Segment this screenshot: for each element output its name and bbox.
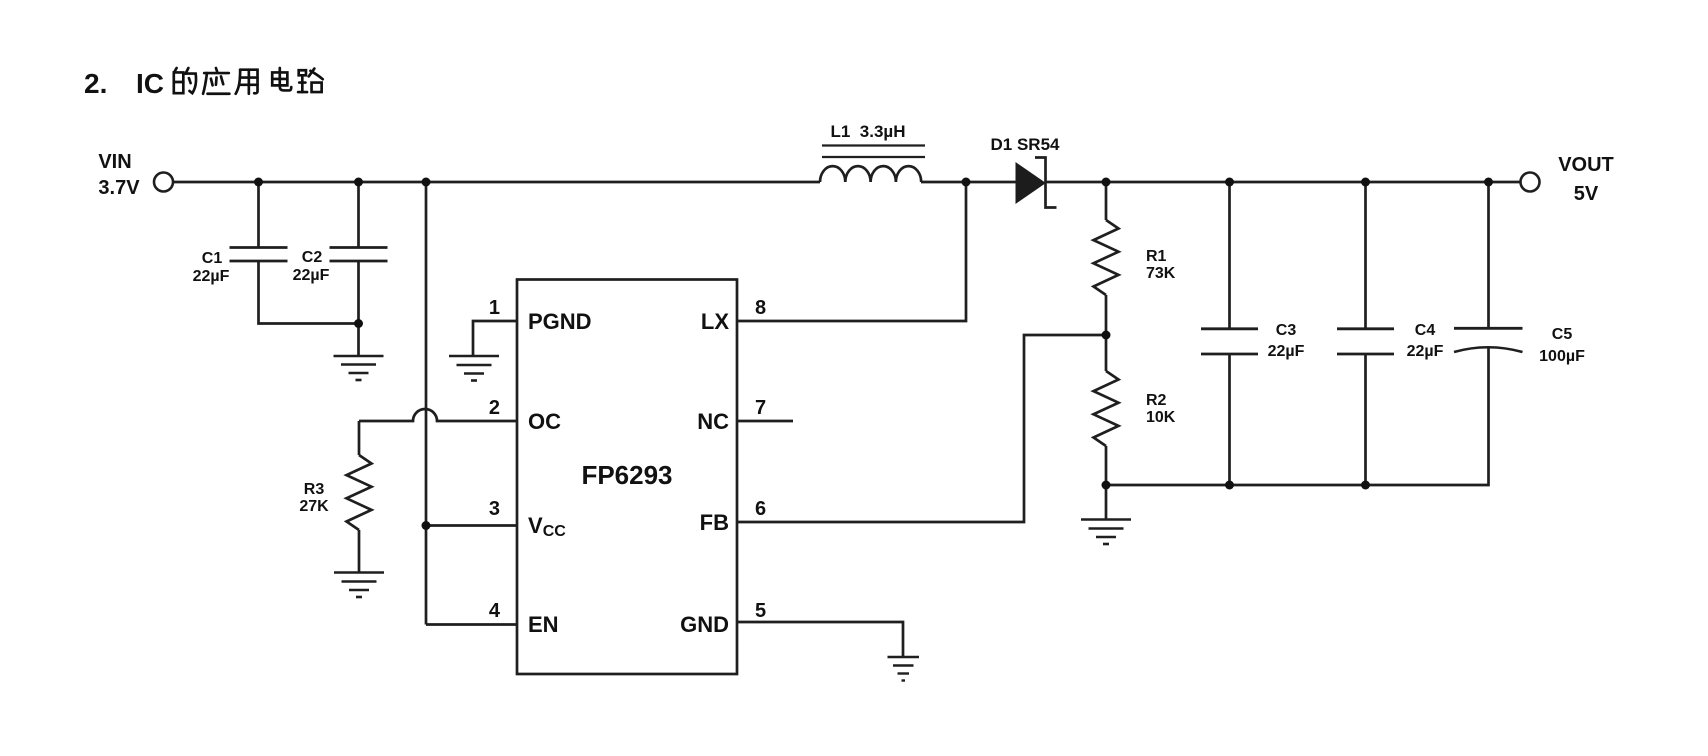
inductor L1 coil bbox=[820, 166, 921, 182]
svg-text:R1: R1 bbox=[1146, 248, 1167, 265]
svg-text:PGND: PGND bbox=[528, 309, 592, 334]
op-amp: IC body FP6293 bbox=[517, 280, 737, 675]
terminal VIN circle bbox=[154, 173, 173, 192]
terminal VOUT circle bbox=[1521, 173, 1540, 192]
node: C3 bottom bbox=[1225, 481, 1234, 490]
svg-text:VOUT: VOUT bbox=[1558, 154, 1614, 176]
svg-text:5V: 5V bbox=[1574, 183, 1599, 205]
node: VCC tap on bus bbox=[422, 521, 431, 530]
svg-text:27K: 27K bbox=[299, 498, 329, 515]
diode D1 cathode bar (schottky) bbox=[1035, 158, 1057, 208]
svg-text:4: 4 bbox=[489, 600, 501, 622]
svg-text:3: 3 bbox=[489, 498, 500, 520]
svg-text:R3: R3 bbox=[304, 481, 325, 498]
svg-text:LX: LX bbox=[701, 309, 729, 334]
svg-text:2: 2 bbox=[489, 397, 500, 419]
svg-text:22µF: 22µF bbox=[193, 268, 230, 285]
title: Chinese characters drawn as strokes bbox=[174, 68, 323, 94]
svg-text:C5: C5 bbox=[1552, 326, 1573, 343]
node: VIN/C1 junction bbox=[254, 178, 263, 187]
svg-text:73K: 73K bbox=[1146, 265, 1176, 282]
svg-text:VIN: VIN bbox=[98, 151, 131, 173]
svg-text:2.: 2. bbox=[84, 68, 107, 99]
node: diode cathode / R1 top bbox=[1102, 178, 1111, 187]
wire: pin5 GND lead bbox=[737, 622, 903, 657]
hanzi 应 bbox=[203, 68, 229, 94]
svg-text:GND: GND bbox=[680, 612, 729, 637]
wire: OC pin2 with hop over bus bbox=[359, 409, 517, 421]
svg-text:L1 3.3µH: L1 3.3µH bbox=[831, 122, 906, 141]
hanzi 路 bbox=[298, 69, 323, 93]
resistor R1 leads bbox=[1105, 182, 1108, 220]
svg-text:FB: FB bbox=[700, 510, 729, 535]
capacitor C5 curved bottom plate bbox=[1454, 347, 1523, 352]
wire: R3 bottom lead bbox=[358, 530, 361, 572]
capacitor C2 plates bbox=[330, 246, 388, 249]
wire: left bus vertical x=426 bbox=[425, 182, 428, 625]
wire: bottom rail bbox=[1106, 347, 1489, 485]
svg-text:7: 7 bbox=[755, 397, 766, 419]
svg-text:6: 6 bbox=[755, 498, 766, 520]
node: C5 top bbox=[1484, 178, 1493, 187]
wire: VCC pin3 horizontal bbox=[426, 524, 517, 527]
svg-text:C3: C3 bbox=[1276, 322, 1297, 339]
resistor R3 zigzag bbox=[347, 455, 372, 530]
svg-text:100µF: 100µF bbox=[1539, 348, 1585, 365]
wire: C4 risers bbox=[1364, 182, 1367, 329]
capacitor C3 plates bbox=[1201, 327, 1258, 330]
capacitor C1 plates bbox=[230, 246, 288, 249]
svg-text:EN: EN bbox=[528, 612, 559, 637]
wire: C3 risers bbox=[1228, 182, 1231, 329]
wire: C2 riser top bbox=[357, 182, 360, 248]
wire: diode to VOUT bbox=[1046, 181, 1521, 184]
wire: pin1 PGND lead bbox=[473, 321, 517, 356]
wire: C5 riser top bbox=[1487, 182, 1490, 328]
node: bus junction bbox=[422, 178, 431, 187]
wire: R3 top lead bbox=[358, 421, 361, 455]
svg-text:C4: C4 bbox=[1415, 322, 1436, 339]
ground: below R2 bbox=[1081, 520, 1131, 545]
svg-text:22µF: 22µF bbox=[1268, 343, 1305, 360]
svg-text:NC: NC bbox=[697, 409, 729, 434]
node: C4 bottom bbox=[1361, 481, 1370, 490]
svg-text:22µF: 22µF bbox=[293, 267, 330, 284]
svg-text:22µF: 22µF bbox=[1407, 343, 1444, 360]
wire: R2 bottom to ground bbox=[1105, 485, 1108, 519]
resistor R2 leads bbox=[1105, 335, 1108, 371]
wire: top rail VIN to inductor bbox=[173, 181, 820, 184]
capacitor C4 plates bbox=[1337, 327, 1394, 330]
svg-text:R2: R2 bbox=[1146, 392, 1167, 409]
node: C4 top bbox=[1361, 178, 1370, 187]
node: switch node LX bbox=[962, 178, 971, 187]
svg-text:5: 5 bbox=[755, 600, 766, 622]
resistor R2 zigzag bbox=[1094, 371, 1119, 446]
hanzi 用 bbox=[236, 70, 258, 94]
svg-text:3.7V: 3.7V bbox=[98, 177, 140, 199]
node: C3 top bbox=[1225, 178, 1234, 187]
svg-text:8: 8 bbox=[755, 297, 766, 319]
node: FB divider junction bbox=[1102, 331, 1111, 340]
inductor L1 core bars bbox=[822, 144, 925, 146]
wire: C1 riser top bbox=[257, 182, 260, 248]
wire: pin7 NC stub bbox=[737, 420, 793, 423]
svg-text:D1 SR54: D1 SR54 bbox=[991, 135, 1061, 154]
svg-text:IC: IC bbox=[136, 68, 164, 99]
hanzi 电 bbox=[272, 68, 291, 90]
svg-text:FP6293: FP6293 bbox=[581, 460, 672, 490]
svg-text:C2: C2 bbox=[302, 249, 323, 266]
hanzi 的 bbox=[174, 68, 196, 93]
svg-text:OC: OC bbox=[528, 409, 561, 434]
capacitor C5 top plate bbox=[1454, 327, 1523, 330]
diode D1 triangle bbox=[1016, 163, 1045, 203]
wire: C2 bottom to ground bbox=[357, 261, 360, 356]
node: C2 junction bbox=[354, 178, 363, 187]
ground: PGND pin1 bbox=[449, 356, 499, 381]
ground: below R3 bbox=[334, 573, 384, 598]
svg-text:1: 1 bbox=[489, 297, 500, 319]
svg-text:10K: 10K bbox=[1146, 409, 1176, 426]
svg-text:VCC: VCC bbox=[528, 513, 566, 540]
wire: inductor to diode bbox=[921, 181, 1016, 184]
wire: pin8 LX lead to switch node bbox=[737, 182, 966, 321]
wire: EN pin4 horizontal bbox=[426, 623, 517, 626]
wire: C1 bottom to join bbox=[259, 261, 359, 324]
resistor R1 zigzag bbox=[1094, 220, 1119, 295]
ground: pin5 GND (small) bbox=[888, 657, 920, 681]
ground: below C2 bbox=[334, 356, 384, 380]
node: C1/C2 bottom join bbox=[354, 319, 363, 328]
svg-text:C1: C1 bbox=[202, 250, 223, 267]
wire: pin6 FB lead to divider bbox=[737, 335, 1106, 522]
node: R2 bottom / ground rail left bbox=[1102, 481, 1111, 490]
